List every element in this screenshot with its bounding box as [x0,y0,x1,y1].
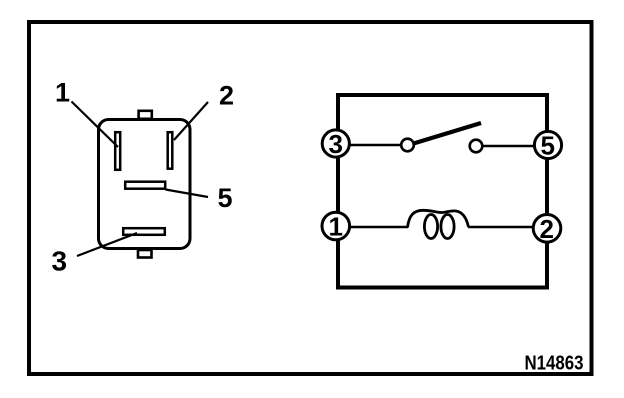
connector bottom tab [138,250,152,258]
wire switch contact to terminal 5 [482,145,535,148]
switch contact b [470,140,483,153]
wire terminal 1 to coil [350,226,408,229]
pin 3 slot [123,228,165,235]
relay coil loop 1 [424,215,437,239]
svg-text:5: 5 [541,131,555,161]
svg-text:N14863: N14863 [525,353,584,375]
pin 1 slot [115,132,120,170]
svg-text:1: 1 [329,212,343,242]
pin 2 slot [168,132,173,169]
schematic box [338,95,547,288]
relay connector body [99,120,191,249]
svg-text:1: 1 [55,78,70,108]
pin 5 slot [125,182,165,189]
svg-text:2: 2 [219,81,234,111]
connector top tab [139,111,152,119]
terminal 1 [322,212,350,240]
terminal 3 [322,130,349,157]
svg-text:2: 2 [540,214,554,244]
terminal 5 [534,131,561,158]
leader line from label 1 to pin 1 slot [72,102,119,148]
svg-text:5: 5 [218,183,233,213]
relay coil loop 2 [441,215,454,239]
leader line from label 2 to pin 2 slot [174,102,208,140]
wire coil to terminal 2 [468,226,533,229]
svg-text:3: 3 [52,246,68,277]
switch blade [414,123,482,144]
svg-text:3: 3 [329,129,343,159]
terminal 2 [533,215,561,243]
switch contact a [401,139,414,152]
relay coil top arcs [408,210,469,227]
leader line from label 3 to pin 3 slot [77,233,137,256]
leader line from pin 5 slot to label 5 [166,190,209,198]
wire terminal 3 to switch contact [350,144,401,147]
